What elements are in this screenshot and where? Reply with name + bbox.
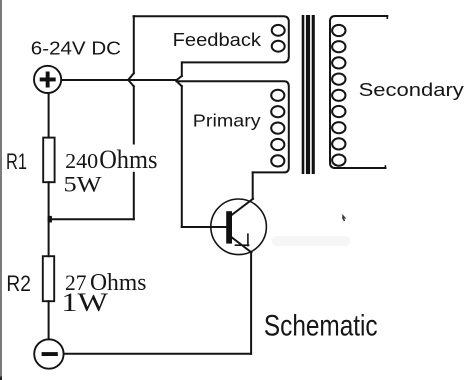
transformer primary winding loop 1	[271, 90, 284, 101]
transformer secondary winding loop 1	[332, 25, 345, 36]
wire: emitter down wire	[250, 252, 252, 354]
svg-text:Feedback: Feedback	[173, 29, 262, 50]
svg-text:R2: R2	[6, 271, 31, 296]
secondary terminal tick bottom	[384, 166, 386, 168]
transformer secondary outline with rounded corners and open terminals	[330, 16, 387, 168]
transistor base bar	[226, 211, 232, 243]
svg-text:240: 240	[65, 149, 98, 173]
transformer secondary winding loop 9	[332, 155, 345, 166]
wire: base wire to transistor	[182, 226, 226, 228]
+ symbol vertical bar	[46, 72, 50, 88]
wire: R1 to junction	[48, 182, 50, 219]
wire: left vertical riser lower part down to R1/R2 junction level	[133, 86, 135, 219]
wire: supply rail from + terminal to pinch node	[61, 79, 175, 81]
transformer primary winding loop 2	[271, 106, 284, 117]
transformer core lamination line middle	[306, 15, 310, 174]
wire: collector riser	[252, 172, 254, 199]
wire: feedback top horizontal with rounded corner to winding right edge	[134, 16, 289, 62]
transistor emitter arrow barb vertical	[247, 234, 249, 245]
wire: pinch join of riser into supply wire (node A)	[128, 73, 134, 86]
battery + terminal circle	[34, 66, 61, 93]
transformer secondary winding loop 6	[332, 106, 345, 117]
transistor Q1 body circle	[211, 199, 267, 255]
wire: pinch join at node B	[176, 76, 182, 86]
transformer secondary winding loop 7	[332, 122, 345, 133]
faint watermark smudge	[272, 236, 350, 246]
svg-text:1W: 1W	[61, 288, 108, 317]
white backing of value text block (hides riser behind Ohms)	[112, 145, 163, 172]
+ symbol horizontal bar	[40, 78, 56, 82]
transformer secondary winding loop 3	[332, 57, 345, 68]
transistor emitter arrow barb horizontal	[236, 244, 249, 246]
transformer secondary winding loop 2	[332, 41, 345, 52]
transformer secondary winding loop 8	[332, 138, 345, 149]
wire: + terminal to R1	[48, 93, 50, 138]
wire: left vertical riser x=133.7 upper part	[133, 16, 135, 73]
transformer feedback winding loop 2	[272, 41, 285, 52]
resistor R2 body	[43, 256, 54, 301]
wire: horizontal from junction dot to riser	[50, 218, 134, 220]
transformer primary winding loop 4	[271, 139, 284, 150]
transformer feedback winding loop 1	[272, 25, 285, 36]
svg-text:5W: 5W	[64, 171, 103, 196]
transformer secondary winding loop 5	[332, 90, 345, 101]
svg-text:R1: R1	[6, 149, 27, 174]
resistor R1 body	[43, 138, 54, 183]
transformer core lamination line right	[312, 15, 315, 174]
svg-text:Secondary: Secondary	[359, 79, 465, 100]
junction dot at R1/R2 node	[48, 216, 52, 223]
wire: R2 to - terminal	[48, 301, 50, 339]
transistor emitter diagonal	[232, 237, 252, 252]
transformer primary winding loop 5	[271, 155, 284, 166]
left gray border stripe	[0, 0, 2, 377]
transformer secondary winding loop 4	[332, 74, 345, 85]
wire: bottom return wire to - terminal	[64, 353, 251, 355]
svg-text:Primary: Primary	[193, 110, 261, 130]
wire: vertical from node B down to transistor base	[181, 86, 183, 227]
svg-text:6-24V DC: 6-24V DC	[31, 38, 121, 59]
secondary terminal tick top	[386, 16, 388, 18]
svg-text:Ohms: Ohms	[99, 145, 157, 174]
transformer core lamination line left	[302, 15, 305, 174]
left border dark stub bottom	[0, 377, 2, 380]
wire: primary top horizontal with rounded corner into winding right edge, down to bottom corner, left to collector riser	[177, 81, 289, 172]
wire: feedback bottom corner down to pinch	[181, 62, 183, 76]
- symbol bar	[42, 352, 58, 356]
wire: junction to R2	[48, 219, 50, 256]
mouse cursor	[342, 214, 346, 221]
battery - terminal circle	[34, 339, 63, 368]
transformer primary winding loop 3	[271, 123, 284, 134]
svg-text:Schematic: Schematic	[264, 309, 378, 342]
transistor collector diagonal	[232, 199, 253, 215]
